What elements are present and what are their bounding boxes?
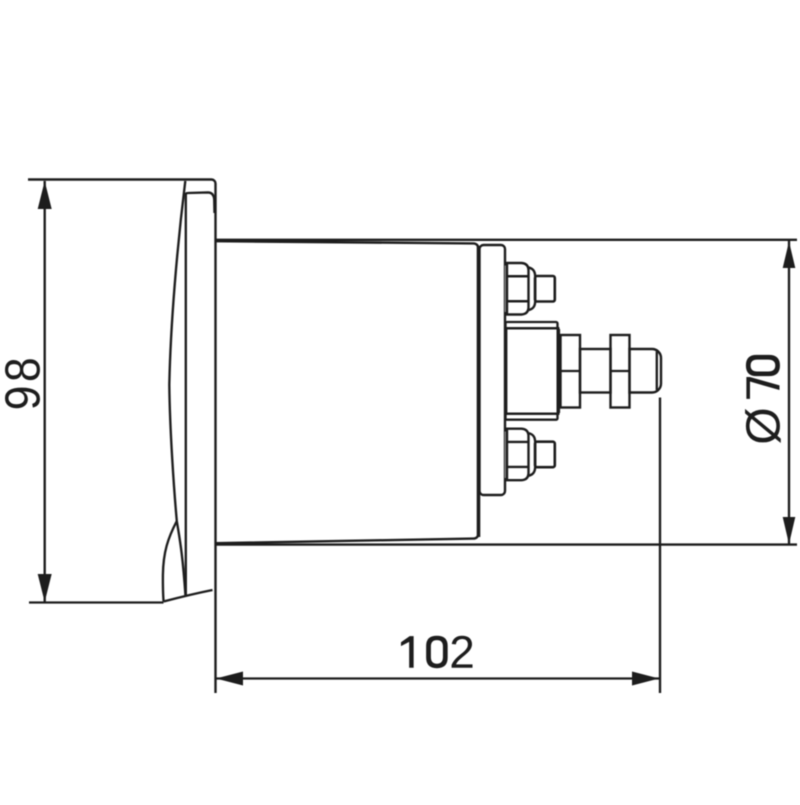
Ø70 bottom extension line [216, 543, 798, 545]
Ø70 dimension line [788, 241, 790, 544]
98 arrow up [38, 181, 52, 209]
102 right extension line [659, 398, 661, 694]
terminal stud bottom (nut) [507, 429, 555, 481]
body cylinder outline [216, 241, 479, 543]
key handle lower-right edge [177, 521, 186, 596]
extension line top (98) + flange right edge + 102 left extension [28, 180, 216, 694]
shaft middle section [580, 349, 611, 393]
body right edge thick [477, 246, 481, 537]
dimension text 102 [401, 636, 473, 669]
98 arrow down [38, 574, 52, 602]
Ø70 top extension line [216, 239, 798, 241]
key handle lower-left edge [163, 521, 177, 602]
flange bottom edge [164, 590, 213, 602]
Ø70 arrow up [783, 242, 796, 269]
back plate [480, 245, 506, 495]
center block bottom band [506, 414, 558, 420]
Ø70 arrow down [783, 517, 796, 544]
center block right edge thick [556, 329, 560, 413]
extension line bottom (98) [29, 601, 164, 603]
102 arrow left [216, 672, 243, 686]
shaft end inner line [656, 352, 658, 391]
key handle outer silhouette [169, 181, 185, 521]
center block top band [506, 322, 558, 328]
dimension text O70 (rotated) [745, 355, 781, 443]
shaft collar 2 [611, 335, 630, 408]
flange front face [186, 192, 215, 596]
102 dimension line [216, 677, 659, 679]
102 arrow right [632, 672, 659, 686]
shaft midline 1 [557, 370, 580, 372]
shaft midline 2 [611, 370, 630, 372]
terminal shading strips [505, 266, 508, 479]
dimension text 98 (rotated) [5, 359, 40, 408]
center block [506, 328, 558, 413]
shaft collar 1 [561, 335, 581, 408]
terminal stud top (nut) [507, 263, 555, 315]
98 dimension line [44, 181, 46, 602]
shaft end piece [630, 349, 662, 393]
